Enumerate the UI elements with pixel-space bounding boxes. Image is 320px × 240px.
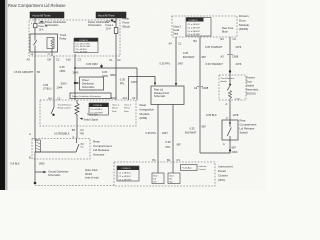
wire from bus to fuse BODY	[34, 18, 36, 24]
svg-text:1950: 1950	[39, 162, 45, 166]
svg-text:Splice Pack: Splice Pack	[85, 169, 98, 172]
svg-text:0.35: 0.35	[183, 51, 189, 55]
connector C908 on 2076 wire	[227, 54, 233, 56]
svg-text:C1: C1	[178, 41, 182, 45]
svg-text:CONN ID: CONN ID	[122, 168, 131, 170]
center control box	[151, 86, 184, 105]
svg-text:S204: S204	[61, 81, 68, 85]
DDSA resistor	[228, 91, 231, 101]
svg-text:Integration: Integration	[140, 107, 155, 111]
svg-text:B: B	[29, 155, 31, 159]
relay contact	[34, 34, 37, 56]
svg-text:0.35: 0.35	[102, 70, 108, 74]
ground dashed rail	[35, 185, 114, 187]
wire DDM B4/C2 down (2076)	[229, 37, 231, 75]
svg-text:0.35: 0.35	[43, 83, 49, 87]
wire DDM A4/C1 to control box	[175, 37, 177, 84]
svg-text:Control: Control	[199, 168, 206, 171]
arrow into power distribution box	[75, 82, 77, 84]
svg-text:C3: C3	[78, 58, 82, 62]
svg-text:0.35 TAN/WHT: 0.35 TAN/WHT	[205, 45, 223, 49]
svg-text:Seat: Seat	[169, 174, 174, 177]
svg-text:C908: C908	[232, 54, 239, 58]
svg-text:Indicator: Indicator	[199, 165, 207, 168]
svg-text:C1: C1	[109, 58, 113, 62]
svg-text:3840: 3840	[110, 73, 116, 77]
svg-text:PPL: PPL	[166, 145, 171, 149]
svg-text:Class 2: Class 2	[124, 104, 132, 106]
svg-text:Power Distribution Schematics: Power Distribution Schematics	[72, 95, 101, 98]
svg-text:C3: C3	[80, 128, 84, 132]
wires control box to IPC	[157, 105, 159, 174]
RIM switch element	[51, 100, 54, 114]
svg-text:Drivers: Drivers	[239, 14, 249, 18]
DDM dashed box	[172, 16, 237, 37]
svg-text:1827: 1827	[162, 131, 168, 135]
fuse A2A 10A	[114, 28, 118, 34]
svg-text:0.5 DK GRN/WHT: 0.5 DK GRN/WHT	[14, 71, 34, 74]
wire DDM B4 down (987)	[199, 37, 201, 153]
svg-text:Module: Module	[140, 112, 150, 116]
connector C908 on 987 wire	[197, 86, 203, 88]
ground wire	[34, 159, 36, 183]
svg-text:Schematics: Schematics	[88, 23, 102, 27]
svg-text:ORN: ORN	[102, 74, 108, 78]
svg-text:Serial: Serial	[112, 108, 118, 110]
svg-text:Rear: Rear	[140, 103, 147, 107]
svg-text:(IPC): (IPC)	[218, 178, 225, 182]
svg-text:0.35: 0.35	[60, 65, 66, 69]
svg-text:Data: Data	[173, 32, 179, 35]
wire switch to 987 junction	[200, 140, 230, 153]
orn bus horizontal	[75, 67, 137, 69]
svg-text:Class 2: Class 2	[112, 104, 120, 106]
svg-text:D8: D8	[48, 58, 52, 62]
wire A10/C3 down (ORN circuit)	[74, 54, 76, 100]
power distribution schematics ref box	[80, 77, 104, 90]
svg-text:CONN ID: CONN ID	[79, 40, 88, 42]
trunk relay outer box	[30, 34, 58, 52]
wire fuse 2 down through pin C1/C2	[115, 34, 117, 101]
fuse BODY 10A	[34, 24, 37, 28]
svg-text:987: 987	[202, 124, 207, 128]
svg-text:987: 987	[202, 55, 207, 59]
svg-text:B3: B3	[72, 128, 76, 132]
svg-text:Sw: Sw	[81, 147, 84, 149]
svg-text:C2: C2	[132, 96, 136, 100]
svg-text:0.35 PPL: 0.35 PPL	[146, 131, 157, 135]
svg-text:1978: 1978	[233, 113, 239, 117]
IPC dashed box	[114, 162, 215, 186]
svg-text:3840: 3840	[73, 71, 79, 75]
svg-text:Power Distribution: Power Distribution	[45, 20, 67, 24]
svg-text:Sw: Sw	[169, 178, 172, 180]
svg-text:Switch: Switch	[221, 80, 228, 83]
svg-text:LT BLU: LT BLU	[43, 87, 52, 91]
ref arrow: Power Distribution Schematics (right)	[88, 20, 116, 27]
IPC cell 1	[152, 173, 164, 184]
svg-text:745: 745	[80, 132, 85, 136]
svg-text:Hot at All Times: Hot at All Times	[98, 14, 115, 17]
svg-text:C2: C2	[56, 58, 60, 62]
svg-text:2076: 2076	[236, 62, 242, 66]
actuator dashed box	[32, 139, 90, 160]
svg-text:CONN ID: CONN ID	[93, 105, 102, 107]
svg-text:C4 = 48 GRN: C4 = 48 GRN	[75, 51, 88, 53]
svg-text:(RIM): (RIM)	[140, 116, 148, 120]
wire RIM to actuator	[76, 126, 78, 139]
svg-text:C1 = 48 BLK: C1 = 48 BLK	[188, 24, 201, 26]
svg-text:B2: B2	[167, 158, 171, 162]
svg-text:Instrument: Instrument	[218, 165, 233, 169]
svg-text:Block: Block	[222, 30, 229, 33]
svg-text:A12: A12	[123, 96, 128, 100]
DDSA switch blade	[227, 75, 231, 91]
svg-text:A9: A9	[27, 58, 31, 62]
wire D8/C2 down to RIM	[53, 56, 55, 100]
svg-text:A3: A3	[221, 54, 225, 58]
ground splice node	[34, 182, 37, 185]
splice node 2000	[229, 149, 231, 151]
svg-text:0.35 ORN: 0.35 ORN	[86, 62, 98, 66]
splice node on 2076	[229, 70, 231, 72]
svg-text:0.35 TAN/WHT: 0.35 TAN/WHT	[206, 62, 224, 66]
header Hot At All Times (left)	[30, 12, 64, 18]
svg-text:A: A	[223, 142, 225, 146]
svg-text:Rear: Rear	[93, 139, 100, 143]
svg-text:987: 987	[177, 142, 182, 146]
svg-text:0.35: 0.35	[120, 78, 126, 82]
svg-text:Lid Release: Lid Release	[93, 148, 110, 152]
svg-text:10 A: 10 A	[106, 27, 111, 31]
actuator switch	[38, 139, 79, 152]
svg-text:Switch Signal: Switch Signal	[84, 118, 99, 121]
svg-text:A: A	[29, 132, 31, 136]
IPC cell 2	[168, 173, 180, 184]
scan border left strip	[0, 0, 5, 190]
svg-text:B1: B1	[153, 158, 157, 162]
svg-text:Module: Module	[239, 23, 249, 27]
RIM CONN ID table	[89, 103, 109, 115]
rear compartment lid release switch box	[222, 120, 238, 140]
IPC CONN ID table	[117, 166, 139, 181]
svg-text:(rear of seat): (rear of seat)	[85, 176, 99, 179]
svg-text:Actuator: Actuator	[93, 153, 105, 157]
RIM resistor	[75, 100, 79, 126]
wire A9 down left side to actuator pin A	[34, 56, 36, 139]
svg-text:A2A: A2A	[106, 19, 111, 23]
svg-text:Ground Distribution: Ground Distribution	[48, 170, 69, 173]
ground ref arrow	[36, 171, 44, 173]
svg-text:C2 = 48 WHT: C2 = 48 WHT	[90, 113, 104, 115]
svg-text:Compartment: Compartment	[93, 144, 112, 148]
svg-text:B4: B4	[194, 39, 198, 43]
svg-text:Relay: Relay	[60, 37, 67, 41]
svg-text:C3 = 48 BLU: C3 = 48 BLU	[188, 31, 201, 33]
trunk relay coil	[47, 38, 54, 49]
svg-text:Trunk Ajar: Trunk Ajar	[182, 167, 192, 170]
svg-text:(DDM): (DDM)	[239, 27, 248, 31]
wire from bus to fuse 2	[115, 18, 117, 28]
svg-text:Schematic: Schematic	[154, 95, 166, 98]
svg-text:Trunk Release: Trunk Release	[221, 78, 236, 80]
svg-text:0.35: 0.35	[166, 140, 172, 144]
svg-text:A10: A10	[66, 58, 71, 62]
svg-text:C3 = 48 GRY: C3 = 48 GRY	[119, 179, 132, 181]
svg-text:CONN ID: CONN ID	[189, 20, 198, 22]
svg-text:0.8 BLK: 0.8 BLK	[11, 162, 20, 166]
svg-text:1407: 1407	[178, 61, 184, 65]
rear fuse block dashed box	[29, 20, 120, 56]
svg-text:1807: 1807	[131, 80, 137, 84]
svg-text:2076: 2076	[236, 45, 242, 49]
svg-text:C1 = 48 BLU: C1 = 48 BLU	[119, 172, 132, 174]
svg-text:B12: B12	[111, 96, 116, 100]
svg-text:BLK/WHT: BLK/WHT	[185, 130, 197, 134]
svg-text:C2 = 48 BLK: C2 = 48 BLK	[119, 176, 132, 178]
ref arrow: Power Distribution Schematics (left)	[31, 20, 67, 27]
svg-text:C: C	[73, 135, 75, 139]
svg-text:0.35: 0.35	[190, 126, 196, 130]
actuator coil	[35, 139, 38, 141]
svg-text:A: A	[226, 102, 228, 106]
svg-text:10 A: 10 A	[39, 28, 44, 31]
wire coil to ground pin B	[35, 152, 38, 159]
wire RIM pin A12 to control box	[129, 77, 156, 101]
svg-text:Fuse 1: Fuse 1	[106, 23, 114, 27]
DDM CONN ID table	[186, 18, 211, 37]
svg-text:Door: Door	[239, 18, 246, 22]
svg-text:Rel: Rel	[153, 181, 157, 183]
IPC trunk ajar indicator box	[181, 165, 198, 171]
svg-text:2000: 2000	[232, 150, 238, 154]
svg-text:987: 987	[232, 145, 237, 149]
RIM dashed box	[40, 100, 136, 126]
svg-text:0.35 PPL: 0.35 PPL	[160, 61, 171, 65]
splice S204	[74, 82, 76, 84]
thin ref box	[70, 93, 111, 99]
svg-text:Switch: Switch	[240, 130, 249, 134]
svg-text:Rear: Rear	[153, 175, 158, 177]
header Hot At All Times (right)	[96, 12, 126, 18]
svg-text:C: C	[226, 116, 228, 120]
svg-text:SP401: SP401	[85, 173, 93, 176]
svg-text:PPL: PPL	[120, 82, 125, 86]
svg-text:0.5 RED/BLK: 0.5 RED/BLK	[54, 132, 70, 136]
svg-text:C2: C2	[117, 58, 121, 62]
svg-text:Rear Compartment Lid Release: Rear Compartment Lid Release	[8, 3, 66, 8]
node on bus under right header	[111, 19, 113, 21]
DDSA dashed box	[219, 75, 246, 100]
svg-text:C4 = 48 WHT: C4 = 48 WHT	[188, 34, 202, 36]
wire fuse BODY to relay coil	[34, 28, 36, 34]
svg-text:Schematics: Schematics	[48, 174, 61, 177]
relay CONN ID table	[74, 38, 98, 53]
svg-text:Schematics: Schematics	[82, 86, 95, 89]
svg-text:BLK/WHT: BLK/WHT	[183, 55, 195, 59]
svg-text:Trunk Release: Trunk Release	[58, 104, 73, 106]
svg-text:B4: B4	[221, 37, 225, 41]
svg-text:Block: Block	[123, 25, 131, 29]
svg-text:C908: C908	[202, 86, 209, 90]
svg-text:Ajar: Ajar	[81, 142, 85, 145]
svg-text:C1 = 48 BLU: C1 = 48 BLU	[90, 109, 103, 111]
svg-text:Trunk: Trunk	[60, 33, 67, 37]
wire DDSA to release switch	[229, 100, 231, 120]
svg-text:Serial: Serial	[124, 108, 130, 110]
svg-text:C2 = 48 GRY: C2 = 48 GRY	[188, 27, 201, 29]
svg-text:A3: A3	[194, 86, 198, 90]
svg-text:Rear Fuse: Rear Fuse	[222, 27, 234, 30]
wire relay coil to pin D8	[51, 49, 53, 57]
bus down arrow	[100, 64, 103, 68]
svg-text:Relay Control: Relay Control	[58, 106, 71, 109]
svg-text:0.35 BLK: 0.35 BLK	[206, 113, 217, 117]
svg-text:A4: A4	[169, 41, 173, 45]
svg-text:1944: 1944	[57, 86, 63, 90]
svg-text:Hot at All Times: Hot at All Times	[33, 13, 52, 17]
svg-text:Panel: Panel	[218, 169, 226, 173]
svg-text:C2: C2	[233, 37, 237, 41]
svg-text:ORN: ORN	[60, 69, 66, 73]
svg-text:(DDSA): (DDSA)	[246, 91, 256, 95]
wire bus to RIM pin C2	[136, 68, 138, 100]
svg-text:C3: C3	[177, 158, 181, 162]
svg-text:Cluster: Cluster	[218, 173, 228, 177]
